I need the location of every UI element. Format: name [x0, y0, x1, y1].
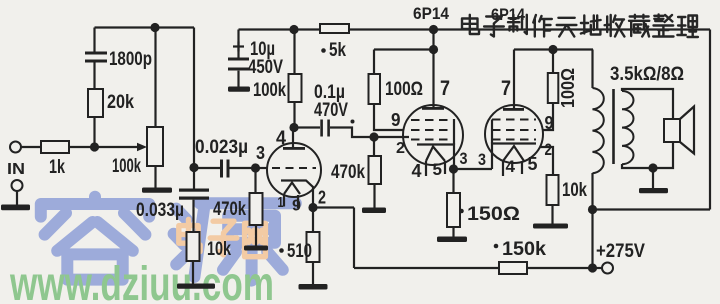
wire primary bottom to B+ node	[591, 173, 593, 268]
ground 10k input	[177, 284, 215, 289]
wire 20k to input node	[93, 117, 95, 147]
wire right edge B+ drop	[709, 30, 711, 210]
wire 0.033u to 10k	[192, 200, 194, 232]
svg-text:100k: 100k	[112, 156, 141, 177]
resistor 470k 6P14 grid	[331, 137, 381, 184]
svg-text:470V: 470V	[314, 100, 348, 121]
node 6P14-1 plate rail junction	[429, 25, 438, 34]
resistor 100 ohm 6P14-1 screen	[369, 74, 424, 104]
potentiometer 100k	[112, 127, 163, 177]
svg-text:3.5kΩ/8Ω: 3.5kΩ/8Ω	[610, 64, 684, 85]
transformer secondary winding	[622, 91, 634, 164]
capacitor 10u 450V	[228, 30, 283, 79]
svg-text:150Ω: 150Ω	[467, 204, 520, 225]
wire 470k triode to ground	[255, 225, 257, 246]
capacitor 1800p	[85, 49, 152, 70]
ground 10u	[228, 87, 250, 92]
svg-text:2: 2	[318, 188, 326, 208]
svg-text:5: 5	[528, 154, 538, 174]
wire cathode to feedback line	[313, 208, 354, 269]
wire 100k to plate node	[293, 102, 295, 128]
resistor 150k	[494, 239, 547, 274]
tube V2 cathode	[417, 119, 468, 169]
svg-text:www.dziuu.com: www.dziuu.com	[9, 258, 274, 304]
node 6P14-1 grid junction	[369, 132, 378, 141]
ground secondary	[639, 188, 668, 193]
ground 470k 6P14	[362, 208, 386, 214]
wire sub-rail2 to primary	[591, 50, 593, 89]
wire 1k to pot wiper	[69, 146, 138, 148]
capacitor 0.033u	[136, 189, 209, 222]
tube V3 plate	[501, 50, 524, 111]
tube V1 triode envelope	[267, 143, 321, 197]
ground 510	[299, 284, 328, 290]
svg-text:450V: 450V	[248, 57, 283, 78]
wire 150ohm to ground	[452, 227, 454, 237]
terminal IN	[7, 142, 25, 179]
svg-text:7: 7	[440, 77, 450, 100]
wire 6P14-1 plate drop	[432, 30, 434, 50]
wire 10u to ground	[237, 71, 239, 87]
wire pot top to rail	[154, 28, 156, 128]
wire rail down to grid node	[193, 28, 195, 189]
terminal +275V	[596, 241, 645, 274]
svg-text:20k: 20k	[107, 92, 134, 113]
resistor 150 ohm cathode	[447, 169, 520, 227]
tube V1 cathode	[281, 181, 326, 208]
svg-text:5: 5	[433, 160, 443, 179]
node triode grid	[251, 163, 260, 172]
svg-text:100Ω: 100Ω	[385, 79, 423, 100]
svg-text:4: 4	[276, 128, 286, 149]
node primary B+ junction	[588, 205, 597, 214]
svg-text:0.033µ: 0.033µ	[136, 200, 184, 221]
resistor 100 ohm 6P14-2	[548, 50, 578, 109]
wire 1800p to 20k	[93, 63, 95, 90]
tube V2 heater	[412, 147, 446, 182]
node triode plate junction	[289, 123, 298, 132]
watermark site logos	[9, 197, 296, 304]
svg-text:470k: 470k	[331, 162, 365, 183]
svg-text:150k: 150k	[502, 239, 546, 260]
wire to +275V terminal	[593, 267, 603, 269]
tube V3 heater	[503, 146, 538, 176]
svg-text:1k: 1k	[49, 157, 65, 178]
wire screen sub-rail 2	[514, 48, 593, 50]
label 7 tube V2	[440, 77, 450, 100]
transformer primary winding	[593, 64, 685, 173]
wire plate node to 0.1u	[294, 126, 320, 128]
svg-text:510: 510	[287, 241, 312, 262]
svg-text:1: 1	[278, 194, 284, 211]
node +275V junction	[588, 263, 597, 272]
node sub-rail 2 junction	[548, 45, 557, 54]
wire grid to 6P14-1 pin2	[374, 137, 409, 157]
svg-text:IN: IN	[7, 161, 25, 178]
svg-text:470k: 470k	[213, 199, 246, 220]
node 6P14-1 screen rail junction	[429, 45, 438, 54]
tube V2 6P14 envelope	[403, 105, 463, 165]
wire top B+ rail	[239, 28, 711, 30]
wire 510 to ground	[312, 262, 314, 284]
wire feedback chain top lead	[93, 28, 95, 52]
svg-text:6P14: 6P14	[413, 4, 449, 23]
node B+ preamp junction	[289, 25, 298, 34]
svg-text:10k: 10k	[207, 239, 231, 260]
svg-text:1800p: 1800p	[109, 49, 152, 70]
svg-text:100k: 100k	[253, 80, 286, 101]
wire 0.1u to grid node	[330, 120, 374, 138]
svg-text:9: 9	[292, 198, 301, 215]
svg-text:3: 3	[478, 150, 486, 169]
wire secondary top to speaker	[622, 89, 673, 119]
label 6P14 second	[491, 5, 525, 24]
svg-text:10k: 10k	[562, 180, 587, 201]
resistor 5k	[320, 24, 349, 61]
tube V3 grid wire to 10k	[540, 140, 553, 175]
wire 100ohm to pin9	[374, 104, 404, 130]
node top-left rail junction	[150, 23, 159, 32]
tube V2 plate	[422, 50, 444, 110]
ground pot	[142, 188, 172, 193]
terminal input ground	[12, 180, 23, 191]
wire pot bottom lead	[154, 166, 156, 188]
svg-text:4: 4	[506, 157, 516, 176]
svg-text:3: 3	[460, 149, 468, 168]
label 6P14 first	[413, 4, 449, 23]
wire cathode link to V3	[454, 152, 493, 169]
ground 10k right	[533, 224, 568, 229]
node triode cathode junction	[308, 203, 317, 212]
ground input	[1, 205, 30, 211]
capacitor 0.023u	[194, 137, 256, 178]
tube V1 grid dashes	[256, 143, 316, 168]
ground 470k triode	[244, 246, 268, 251]
wire 10k to ground	[551, 205, 553, 224]
wire bottom line left	[354, 267, 499, 269]
wire screen sub-rail 1	[374, 50, 434, 75]
resistor 100k dropper	[253, 30, 302, 103]
svg-text:100Ω: 100Ω	[558, 68, 578, 108]
tube V3 6P14 envelope	[485, 105, 543, 163]
svg-text:3: 3	[256, 143, 265, 163]
svg-text:0.023µ: 0.023µ	[195, 137, 248, 158]
capacitor 0.1u 470V	[314, 82, 348, 137]
node secondary ground junction	[648, 163, 657, 172]
wire 100ohm-2 to pin9	[543, 103, 554, 133]
tube V3 cathode	[478, 120, 536, 170]
tube V1 plate	[276, 128, 305, 150]
wire top-left feedback rail	[95, 26, 195, 28]
resistor 20k	[88, 89, 134, 117]
watermark title	[462, 15, 698, 38]
resistor 10k input	[187, 232, 232, 261]
speaker	[664, 107, 694, 154]
node grid network junction	[189, 163, 198, 172]
resistor 1k	[41, 141, 69, 178]
svg-text:2: 2	[545, 140, 553, 159]
wire secondary bottom	[622, 142, 673, 168]
tube V2 grid dashes	[411, 120, 455, 140]
ground 150 ohm	[437, 237, 467, 243]
svg-text:9: 9	[545, 113, 554, 133]
svg-text:4: 4	[412, 161, 422, 181]
wire 470k 6P14 to ground	[373, 184, 375, 208]
wire IN to 1k	[21, 146, 41, 148]
resistor 10k grid	[547, 175, 588, 205]
wire B+ bottom return	[593, 208, 711, 210]
svg-text:9: 9	[391, 110, 401, 130]
svg-text:7: 7	[501, 77, 511, 100]
tube V3 grid dashes	[492, 120, 536, 140]
resistor 470k triode grid	[213, 168, 263, 225]
wire secondary ground lead	[652, 168, 654, 188]
wire bottom line right	[527, 267, 593, 269]
resistor 510 cathode	[279, 208, 319, 263]
node input junction	[90, 142, 99, 151]
wire grid into triode	[256, 167, 269, 169]
transformer core	[612, 89, 615, 164]
wire input ground lead	[16, 191, 18, 205]
tube V1 heater	[278, 183, 302, 215]
svg-text:+275V: +275V	[596, 241, 645, 262]
node cathode shared junction	[449, 164, 458, 173]
svg-text:5k: 5k	[329, 40, 346, 61]
wire 10k to ground	[192, 261, 194, 284]
